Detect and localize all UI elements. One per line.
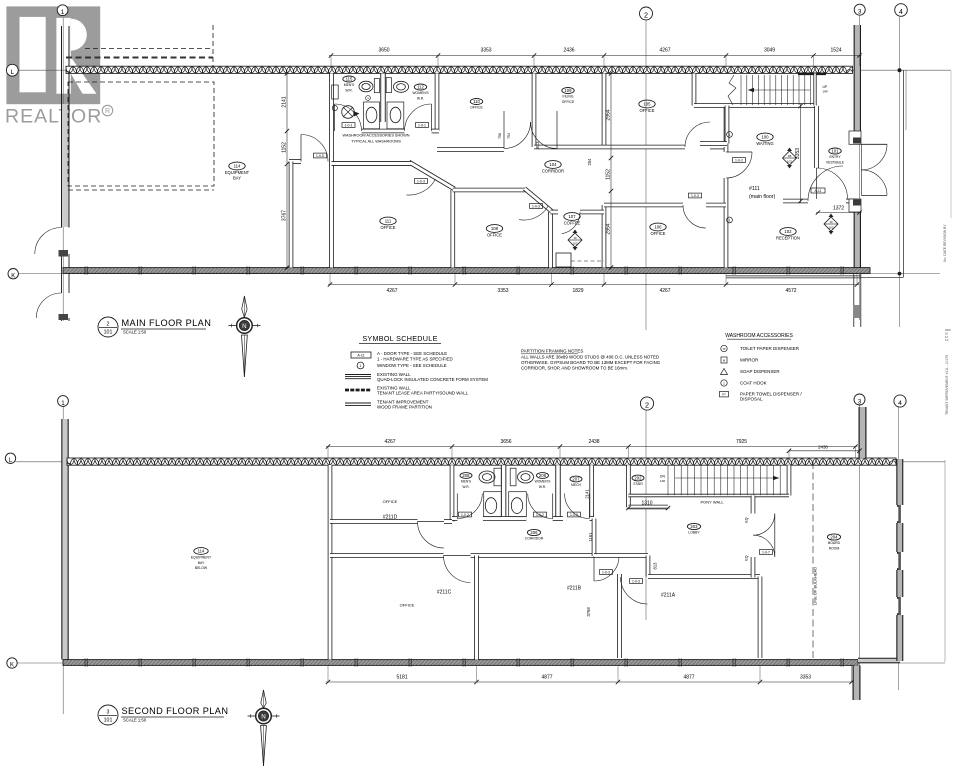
svg-text:4572: 4572 xyxy=(785,288,796,294)
svg-text:WOOD FRAME PARTITION: WOOD FRAME PARTITION xyxy=(377,405,432,410)
svg-text:EQ: EQ xyxy=(745,555,749,560)
svg-text:COAT HOOK: COAT HOOK xyxy=(740,381,767,386)
svg-text:TP: TP xyxy=(722,348,725,351)
svg-text:MEN'S: MEN'S xyxy=(461,479,472,483)
svg-text:1-0-3: 1-0-3 xyxy=(532,205,540,209)
svg-text:WAITING: WAITING xyxy=(756,141,773,146)
svg-text:111: 111 xyxy=(385,219,392,224)
svg-text:107: 107 xyxy=(568,214,576,219)
svg-text:114: 114 xyxy=(234,164,241,169)
svg-text:1524: 1524 xyxy=(830,48,841,54)
svg-text:102: 102 xyxy=(572,242,577,246)
svg-text:#111: #111 xyxy=(749,186,760,192)
svg-text:OFFICE: OFFICE xyxy=(639,108,654,113)
svg-text:WASHROOM ACCESSORIES SHOWN: WASHROOM ACCESSORIES SHOWN xyxy=(343,134,410,138)
svg-text:2: 2 xyxy=(645,401,649,410)
svg-text:102: 102 xyxy=(787,160,792,164)
svg-text:SCALE 1:50: SCALE 1:50 xyxy=(123,718,147,723)
svg-text:PONY WALL: PONY WALL xyxy=(700,500,724,505)
svg-text:1-0-2: 1-0-2 xyxy=(461,513,469,517)
svg-text:3656: 3656 xyxy=(500,439,511,445)
svg-text:OFFICE: OFFICE xyxy=(380,225,395,230)
svg-text:3650: 3650 xyxy=(378,48,389,54)
svg-text:STAIR: STAIR xyxy=(633,482,643,486)
svg-text:2141: 2141 xyxy=(585,489,590,499)
svg-text:1-0-5: 1-0-5 xyxy=(316,154,324,158)
svg-text:1-0-2: 1-0-2 xyxy=(536,513,544,517)
svg-text:1: 1 xyxy=(360,364,362,368)
svg-text:LOBBY: LOBBY xyxy=(688,531,700,535)
svg-text:4267: 4267 xyxy=(659,288,670,294)
svg-text:101: 101 xyxy=(104,330,113,336)
svg-text:A-11: A-11 xyxy=(357,353,364,357)
svg-text:N: N xyxy=(242,323,246,330)
svg-text:CORRIDOR: CORRIDOR xyxy=(525,537,544,541)
svg-text:OFFICE: OFFICE xyxy=(383,499,398,504)
svg-text:109: 109 xyxy=(564,88,572,93)
svg-text:3353: 3353 xyxy=(800,675,811,681)
svg-text:114: 114 xyxy=(198,549,205,554)
svg-text:105: 105 xyxy=(643,102,651,107)
svg-text:MAIN FLOOR PLAN: MAIN FLOOR PLAN xyxy=(122,318,212,328)
svg-text:No. DATE REVISION BY: No. DATE REVISION BY xyxy=(943,224,947,262)
svg-text:3353: 3353 xyxy=(480,48,491,54)
svg-text:14R: 14R xyxy=(823,90,828,94)
svg-text:2954: 2954 xyxy=(606,109,612,120)
svg-text:#211D: #211D xyxy=(383,515,398,521)
svg-text:BOARD: BOARD xyxy=(828,541,841,545)
svg-text:TYPICAL ALL WASHROOMS: TYPICAL ALL WASHROOMS xyxy=(351,140,401,144)
svg-text:EQUIPMENT: EQUIPMENT xyxy=(225,170,250,175)
svg-text:1-0-1: 1-0-1 xyxy=(345,124,353,128)
svg-text:2954: 2954 xyxy=(606,223,612,234)
svg-text:A - DOOR TYPE - SEE SCHEDU: A - DOOR TYPE - SEE SCHEDULE xyxy=(377,351,447,356)
svg-text:206: 206 xyxy=(530,530,538,535)
svg-text:1372: 1372 xyxy=(833,206,844,212)
svg-text:A-11: A-11 xyxy=(815,189,822,193)
svg-text:209: 209 xyxy=(539,473,547,478)
svg-text:4877: 4877 xyxy=(541,675,552,681)
svg-text:1-0-1: 1-0-1 xyxy=(418,124,426,128)
svg-text:1-0-7: 1-0-7 xyxy=(762,551,770,555)
svg-text:ROOM: ROOM xyxy=(829,547,840,551)
svg-text:115: 115 xyxy=(346,77,353,82)
svg-text:106: 106 xyxy=(654,225,662,230)
svg-text:#211B: #211B xyxy=(567,586,582,592)
svg-text:MEN'S: MEN'S xyxy=(344,83,355,87)
svg-text:110: 110 xyxy=(473,99,480,104)
svg-text:R: R xyxy=(105,108,110,115)
svg-text:1-0-2: 1-0-2 xyxy=(735,159,743,163)
svg-text:ALL WALLS ARE 38x89 WOOD STUDS: ALL WALLS ARE 38x89 WOOD STUDS @ 406 O.C… xyxy=(521,355,659,360)
svg-text:2436: 2436 xyxy=(563,48,574,54)
svg-text:OFFICE: OFFICE xyxy=(650,231,665,236)
svg-text:4267: 4267 xyxy=(386,288,397,294)
svg-text:4: 4 xyxy=(899,9,903,16)
svg-text:TENANT LEASE AREA PARTY/SOUND: TENANT LEASE AREA PARTY/SOUND WALL xyxy=(377,391,469,396)
svg-text:6 F: 6 F xyxy=(945,338,949,342)
svg-text:2: 2 xyxy=(107,322,110,328)
svg-text:1-0-3: 1-0-3 xyxy=(417,180,425,184)
svg-text:SYMBOL SCHEDULE: SYMBOL SCHEDULE xyxy=(362,334,437,343)
svg-text:OFFICE: OFFICE xyxy=(470,106,483,110)
svg-text:L: L xyxy=(10,69,14,76)
svg-text:SCALE 1:50: SCALE 1:50 xyxy=(123,330,147,335)
svg-text:COFFEE: COFFEE xyxy=(564,220,581,225)
svg-text:W.R.: W.R. xyxy=(345,88,352,92)
svg-text:PARTITION FRAMING NOTES: PARTITION FRAMING NOTES xyxy=(521,349,583,354)
svg-text:203: 203 xyxy=(690,524,698,529)
svg-text:3: 3 xyxy=(858,398,862,405)
svg-text:1152: 1152 xyxy=(606,169,612,180)
svg-text:TENANT IMPROVEMENT #111 - 101: TENANT IMPROVEMENT #111 - 10179 xyxy=(945,355,949,415)
svg-text:1-0-3: 1-0-3 xyxy=(602,571,610,575)
svg-text:MECH: MECH xyxy=(571,483,581,487)
svg-text:2: 2 xyxy=(644,11,648,20)
svg-text:207: 207 xyxy=(572,477,580,482)
svg-text:WOMEN'S: WOMEN'S xyxy=(535,479,552,483)
svg-text:2438: 2438 xyxy=(818,445,828,450)
svg-text:1-0-2: 1-0-2 xyxy=(570,513,578,517)
svg-text:3049: 3049 xyxy=(764,48,775,54)
svg-text:FILING: FILING xyxy=(563,95,574,99)
svg-text:3768: 3768 xyxy=(586,607,591,617)
svg-text:813: 813 xyxy=(653,562,658,570)
svg-text:16: 16 xyxy=(573,236,577,240)
svg-text:104: 104 xyxy=(549,162,557,167)
svg-text:C: C xyxy=(723,381,725,385)
svg-text:QUAD-LOCK INSULATED CONCRETE F: QUAD-LOCK INSULATED CONCRETE FORM SYSTEM xyxy=(377,377,488,382)
svg-text:1152: 1152 xyxy=(282,142,288,153)
svg-text:OFFICE: OFFICE xyxy=(487,232,502,237)
svg-text:DN: DN xyxy=(660,475,665,479)
svg-text:ENTRY: ENTRY xyxy=(829,155,841,159)
svg-text:14R: 14R xyxy=(660,479,665,483)
svg-text:1: 1 xyxy=(729,218,731,222)
svg-text:LINE OF BULKHEAD: LINE OF BULKHEAD xyxy=(813,567,818,605)
svg-text:756: 756 xyxy=(498,133,502,139)
svg-text:TOILET PAPER DISPENSER: TOILET PAPER DISPENSER xyxy=(740,346,800,351)
svg-text:1 - HARDWARE TYPE AS SPECIFI: 1 - HARDWARE TYPE AS SPECIFIED xyxy=(377,357,453,362)
svg-text:1-0-3: 1-0-3 xyxy=(632,580,640,584)
svg-text:3353: 3353 xyxy=(497,288,508,294)
svg-text:101: 101 xyxy=(104,718,113,724)
svg-text:1-0-3: 1-0-3 xyxy=(691,194,699,198)
svg-text:813: 813 xyxy=(535,141,540,149)
svg-text:3767: 3767 xyxy=(282,210,288,221)
svg-text:RECEPTION: RECEPTION xyxy=(776,235,800,240)
svg-text:100: 100 xyxy=(761,135,769,140)
svg-text:CORRIDOR: CORRIDOR xyxy=(542,168,564,173)
svg-text:1: 1 xyxy=(729,133,731,137)
svg-text:4: 4 xyxy=(898,400,902,407)
svg-text:4267: 4267 xyxy=(659,48,670,54)
svg-text:102: 102 xyxy=(828,226,833,230)
svg-text:(main floor): (main floor) xyxy=(749,194,776,200)
svg-text:WASHROOM ACCESSORIES: WASHROOM ACCESSORIES xyxy=(725,333,793,339)
svg-text:DRN: DRN xyxy=(945,328,951,332)
svg-text:REALTOR: REALTOR xyxy=(5,106,102,128)
svg-text:112: 112 xyxy=(417,85,424,90)
svg-text:VESTIBULE: VESTIBULE xyxy=(826,160,845,164)
svg-text:2141: 2141 xyxy=(282,96,288,107)
svg-text:CORRIDOR, SHOP, AND SHOWROOM T: CORRIDOR, SHOP, AND SHOWROOM TO BE 16mm. xyxy=(521,366,628,371)
svg-text:MIRROR: MIRROR xyxy=(740,358,759,363)
svg-text:202: 202 xyxy=(634,476,642,481)
svg-text:SOAP DISPENSER: SOAP DISPENSER xyxy=(740,369,780,374)
svg-text:BAY: BAY xyxy=(233,175,241,180)
svg-text:EQ: EQ xyxy=(745,517,749,522)
svg-text:W.R.: W.R. xyxy=(462,485,469,489)
svg-text:3: 3 xyxy=(858,9,862,16)
svg-text:4877: 4877 xyxy=(683,675,694,681)
svg-text:K: K xyxy=(11,273,15,279)
svg-text:W.R.: W.R. xyxy=(539,485,546,489)
svg-text:1: 1 xyxy=(61,400,65,407)
svg-text:101: 101 xyxy=(831,149,839,154)
svg-text:WOMEN'S: WOMEN'S xyxy=(412,91,429,95)
svg-text:7925: 7925 xyxy=(736,439,747,445)
svg-text:DISPOSAL: DISPOSAL xyxy=(740,397,763,402)
svg-text:BAY: BAY xyxy=(198,561,205,565)
svg-text:BELOW: BELOW xyxy=(195,566,208,570)
svg-text:102: 102 xyxy=(784,229,792,234)
svg-text:K: K xyxy=(10,663,14,669)
svg-text:204: 204 xyxy=(830,535,838,540)
svg-text:3: 3 xyxy=(107,710,110,716)
svg-text:W.R.: W.R. xyxy=(417,96,424,100)
svg-text:1B: 1B xyxy=(788,154,792,158)
svg-text:N: N xyxy=(261,713,265,720)
svg-text:204: 204 xyxy=(587,158,592,166)
svg-text:2438: 2438 xyxy=(588,439,599,445)
svg-text:5181: 5181 xyxy=(396,675,407,681)
svg-text:UP: UP xyxy=(823,85,828,89)
svg-text:SECOND FLOOR PLAN: SECOND FLOOR PLAN xyxy=(122,706,229,716)
svg-text:1829: 1829 xyxy=(572,288,583,294)
svg-text:16: 16 xyxy=(829,220,833,224)
svg-text:1310: 1310 xyxy=(641,501,652,507)
svg-text:208: 208 xyxy=(462,473,470,478)
svg-text:OFFICE: OFFICE xyxy=(400,603,415,608)
svg-text:754: 754 xyxy=(507,133,511,139)
svg-text:OTHERWISE. GYPSUM BOARD TO: OTHERWISE. GYPSUM BOARD TO BE 13MM EXCEP… xyxy=(521,360,661,365)
svg-text:1161: 1161 xyxy=(588,532,593,542)
svg-text:EQUIPMENT: EQUIPMENT xyxy=(191,555,211,559)
svg-text:PT: PT xyxy=(722,393,726,397)
svg-text:OFFICE: OFFICE xyxy=(562,100,575,104)
svg-text:4267: 4267 xyxy=(384,439,395,445)
svg-text:WINDOW TYPE - SEE SCHEDULE: WINDOW TYPE - SEE SCHEDULE xyxy=(377,363,447,368)
svg-text:1: 1 xyxy=(61,9,65,16)
svg-text:108: 108 xyxy=(491,226,499,231)
svg-text:#211C: #211C xyxy=(437,590,452,596)
svg-text:#211A: #211A xyxy=(661,593,676,599)
